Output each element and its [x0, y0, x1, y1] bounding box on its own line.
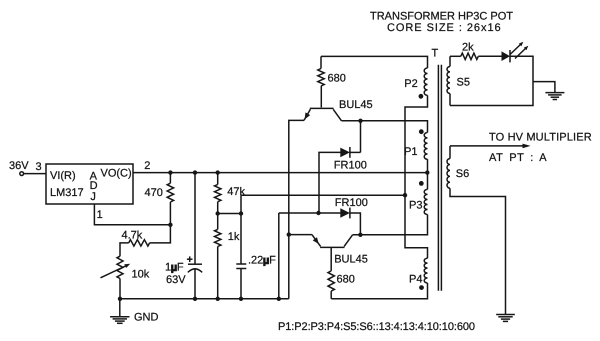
svg-text:P4: P4 [409, 274, 422, 286]
wire divider junction to bias node [218, 213, 241, 215]
svg-text:LM317: LM317 [50, 187, 84, 199]
transformer core [437, 65, 439, 291]
wire top feedback rail [321, 56, 428, 68]
svg-text:BUL45: BUL45 [339, 99, 373, 111]
svg-text:FR100: FR100 [334, 160, 367, 172]
wire diode return to ground rail [278, 213, 280, 299]
svg-text:P2: P2 [404, 78, 417, 90]
svg-text:1μF: 1μF [165, 262, 184, 274]
svg-text:VI(R): VI(R) [50, 170, 76, 182]
node rail-470 junction [168, 170, 172, 174]
svg-text:BUL45: BUL45 [334, 253, 368, 265]
node D1 anode junction [316, 211, 320, 215]
node rail-C1 junction [193, 170, 197, 174]
svg-text:3: 3 [36, 161, 42, 173]
svg-text:P3: P3 [409, 200, 422, 212]
svg-text:J: J [90, 191, 96, 203]
svg-text:1: 1 [97, 209, 103, 221]
potentiometer R5 10k [117, 256, 123, 278]
svg-text:AT PT : A: AT PT : A [489, 152, 547, 164]
wire 36V input to U1 [24, 173, 46, 175]
wire S6 to ground [450, 188, 506, 314]
wire bias rail to windings [241, 194, 405, 196]
node bias junction [239, 211, 243, 215]
svg-text:TRANSFORMER HP3C POT: TRANSFORMER HP3C POT [370, 11, 513, 23]
transistor Q1 BUL45 upper [320, 86, 322, 107]
wire S5 ground stub [533, 82, 555, 93]
ground S6 [496, 314, 515, 316]
wire R7 to P4 bottom [331, 283, 427, 299]
resistor R3 1k [215, 229, 221, 246]
wire S5 loop [450, 56, 533, 105]
svg-text:2: 2 [144, 160, 150, 172]
svg-text:P1:P2:P3:P4:S5:S6::13:4:13:4:1: P1:P2:P3:P4:S5:S6::13:4:13:4:10:10:600 [278, 321, 475, 333]
LED D3 [502, 51, 511, 61]
svg-text:FR100: FR100 [335, 197, 368, 209]
svg-text:1k: 1k [228, 231, 240, 243]
svg-text:2k: 2k [462, 42, 474, 54]
node gnd rail junction [118, 297, 122, 301]
resistor R6 680 upper [320, 56, 322, 68]
svg-text:CORE SIZE : 26x16: CORE SIZE : 26x16 [387, 22, 502, 34]
svg-text:TO HV MULTIPLIER: TO HV MULTIPLIER [489, 132, 592, 144]
winding P1 [424, 133, 427, 160]
svg-text:470: 470 [145, 187, 163, 199]
capacitor C1 1uF 63V [194, 173, 196, 265]
svg-text:680: 680 [328, 73, 346, 85]
wire Q1 emitter to ground rail [289, 120, 304, 298]
wire U1 output supply rail [133, 172, 428, 174]
node diode return gnd junction [277, 297, 281, 301]
node rail end junction [425, 170, 429, 174]
winding P4 [424, 258, 427, 283]
svg-text:T: T [432, 47, 439, 59]
wire U1 ADJ pin [94, 204, 170, 225]
svg-text:680: 680 [337, 274, 355, 286]
node Q2 emitter junction [287, 232, 291, 236]
node 47k-1k junction [216, 211, 220, 215]
resistor R2 47k [217, 173, 219, 185]
node Q1 collector junction [358, 119, 362, 123]
wire lower diode rail [279, 212, 341, 214]
winding S6 [447, 159, 450, 189]
svg-text:47k: 47k [227, 186, 245, 198]
wire bias to P2 bottom and P4 top [405, 95, 428, 258]
svg-text:36V: 36V [9, 160, 29, 172]
node Q2 collector junction [358, 233, 362, 237]
node C1-gnd junction [193, 297, 197, 301]
wire Q1 collector to P1 [342, 121, 428, 133]
node C2-gnd junction [239, 297, 243, 301]
resistor R4 4.7k [150, 225, 171, 243]
winding S5 [447, 67, 450, 94]
svg-text:10k: 10k [132, 269, 150, 281]
wire S6 output arrow [450, 145, 524, 147]
node bias-winding junction [403, 193, 407, 197]
node ADJ-470 junction [168, 223, 172, 227]
svg-text:P1: P1 [404, 146, 417, 158]
resistor R8 2k [450, 55, 461, 57]
svg-text:VO(C): VO(C) [101, 167, 132, 179]
svg-text:S5: S5 [457, 77, 470, 89]
svg-text:S6: S6 [456, 168, 469, 180]
diode D2 FR100 lower [349, 208, 351, 219]
svg-text:63V: 63V [166, 274, 186, 286]
wire ground rail [120, 298, 289, 300]
node 1k-gnd junction [216, 297, 220, 301]
svg-text:GND: GND [134, 312, 159, 324]
capacitor C2 .22uF [236, 263, 246, 265]
svg-text:.22μF: .22μF [248, 255, 276, 267]
winding P3 [424, 189, 427, 214]
op-amp U1 LM317 regulator box [46, 164, 133, 204]
svg-text:4.7k: 4.7k [122, 230, 143, 242]
resistor R1 470 [169, 173, 171, 184]
node 36V input terminal [20, 172, 24, 176]
winding P2 [424, 68, 427, 95]
wire bias vertical [240, 195, 242, 264]
wire Q2 emitter [289, 234, 312, 236]
wire Q2 collector to P3 [353, 215, 428, 235]
node rail-47k junction [216, 170, 220, 174]
diode D1 FR100 upper [360, 121, 362, 153]
ground S5 [545, 92, 564, 94]
resistor R7 680 lower [328, 271, 334, 291]
ground GND symbol [119, 299, 121, 317]
transistor Q2 BUL45 lower [320, 246, 344, 248]
